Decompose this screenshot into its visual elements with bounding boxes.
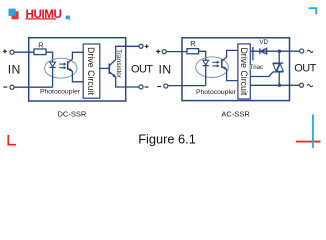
- triac VT gate wire: [250, 72, 273, 77]
- AC-SSR enclosure box: [182, 38, 290, 101]
- svg-text:R: R: [190, 39, 195, 48]
- LED D1 triangle: [50, 62, 56, 67]
- photocoupler envelope ellipse (right): [196, 57, 229, 78]
- svg-text:Photocoupler: Photocoupler: [196, 89, 237, 96]
- transistor Q1 emitter arrowhead: [112, 74, 116, 78]
- svg-text:R: R: [38, 40, 43, 49]
- triac VT bottom bar: [273, 71, 283, 73]
- minus sign IN- (right): [157, 86, 161, 88]
- triac VT MT1 lead: [278, 72, 280, 85]
- phototransistor emitter arrowhead: [69, 68, 73, 71]
- LED D2 cathode bar: [203, 65, 209, 67]
- light arrow lower head (right): [217, 64, 220, 67]
- plus sign OUT+ (left): [145, 44, 149, 48]
- label Triac (white backed): [250, 64, 262, 70]
- svg-text:Triac: Triac: [250, 64, 263, 71]
- light arrow lower head: [64, 66, 67, 69]
- phototransistor bar: [67, 61, 69, 70]
- triac VT triangle up: [277, 64, 283, 71]
- junction dot bottom (triac MT1 node): [278, 84, 281, 87]
- phototransistor collector wire to drive circuit: [68, 52, 84, 63]
- wire OUT~ bottom rail: [250, 84, 299, 86]
- svg-text:Drive Circuit: Drive Circuit: [239, 47, 249, 95]
- DC-SSR enclosure box: [29, 38, 126, 101]
- plus sign IN+ (right): [156, 50, 160, 54]
- light arrow lower (right): [212, 65, 217, 67]
- AC tilde top: [307, 50, 313, 52]
- logo underline: [25, 18, 56, 19]
- logo blue square: [9, 9, 16, 16]
- drive circuit box (left): [83, 44, 100, 98]
- wire IN- rail (right): [168, 85, 206, 87]
- triac VT triangle down: [273, 64, 279, 72]
- light arrow upper head: [64, 63, 67, 66]
- phototransistor emitter arrowhead (right): [223, 66, 227, 69]
- light arrow upper head (right): [217, 61, 220, 64]
- svg-text:AC-SSR: AC-SSR: [221, 110, 250, 119]
- wire IN+ to resistor: [14, 51, 34, 53]
- wire resistor to LED anode: [46, 52, 53, 62]
- svg-text:Photocoupler: Photocoupler: [40, 89, 81, 96]
- crop mark red L bottom-left: [8, 135, 16, 145]
- svg-text:VD: VD: [259, 39, 268, 46]
- light arrow upper (right): [212, 61, 217, 63]
- phototransistor collector wire to drive circuit (right): [222, 50, 238, 61]
- terminal circle IN+ (right): [162, 50, 166, 54]
- svg-text:Transistor: Transistor: [115, 49, 122, 79]
- phototransistor emitter wire to drive circuit (right): [222, 66, 238, 80]
- light arrow lower: [59, 67, 64, 69]
- svg-text:DC-SSR: DC-SSR: [58, 109, 87, 118]
- wire drive circuit to diode VD and OUT~ top: [250, 50, 300, 52]
- logo mini red square: [69, 18, 71, 20]
- triac VT top bar: [273, 62, 283, 64]
- terminal circle OUT+ (left): [139, 44, 143, 48]
- svg-text:OUT: OUT: [131, 64, 153, 76]
- svg-text:OUT: OUT: [294, 63, 316, 75]
- photocoupler envelope (ellipse): [45, 58, 77, 78]
- svg-text:Drive Circuit: Drive Circuit: [86, 47, 96, 95]
- svg-text:Figure 6.1: Figure 6.1: [138, 132, 196, 147]
- svg-text:IN: IN: [158, 63, 171, 77]
- plus sign IN+ (left): [3, 49, 7, 53]
- crop mark cyan line bottom-right: [312, 114, 314, 147]
- terminal circle IN- (right): [164, 84, 168, 88]
- terminal circle IN+ (left): [10, 50, 14, 54]
- triac VT MT2 lead: [278, 51, 280, 63]
- phototransistor emitter wire to drive circuit: [68, 68, 84, 82]
- transistor Q1 collector wire to OUT+: [109, 46, 139, 65]
- logo mini blue square: [66, 16, 70, 20]
- svg-text:IN: IN: [8, 63, 21, 77]
- resistor R (left): [34, 49, 46, 55]
- wire resistor to LED anode (right): [199, 51, 206, 60]
- wire IN+ to resistor (right): [166, 51, 187, 53]
- logo red square: [11, 11, 18, 19]
- drive circuit box (right): [238, 44, 250, 99]
- terminal circle IN- (left): [10, 85, 14, 89]
- junction dot top (VD / triac MT2 node): [278, 50, 281, 53]
- terminal circle OUT~ bottom: [299, 83, 303, 87]
- wire LED cathode down to IN- rail (right): [205, 66, 207, 86]
- light arrow upper: [59, 63, 64, 65]
- wire IN- rail: [14, 86, 53, 88]
- crop mark red line bottom-right: [296, 141, 321, 143]
- phototransistor bar (right): [221, 59, 223, 68]
- stub wire at diode anode: [252, 47, 254, 60]
- minus sign IN- (left): [3, 86, 7, 88]
- LED D1 cathode bar: [50, 66, 56, 68]
- LED D2 triangle: [203, 60, 209, 65]
- terminal circle OUT~ top: [300, 49, 304, 53]
- diode VD bar: [259, 48, 261, 54]
- terminal circle OUT- (left): [139, 85, 143, 89]
- resistor R (right): [187, 49, 199, 54]
- diode VD triangle: [260, 48, 266, 54]
- wire LED cathode down to IN- rail: [52, 67, 54, 87]
- transistor Q1 emitter wire to OUT-: [109, 72, 139, 87]
- wire drive circuit to transistor base: [100, 67, 109, 69]
- minus sign OUT- (left): [145, 86, 149, 88]
- transistor Q1 base bar: [108, 63, 110, 74]
- AC tilde bottom: [307, 84, 313, 86]
- crop mark cyan bracket top-right: [309, 8, 317, 14]
